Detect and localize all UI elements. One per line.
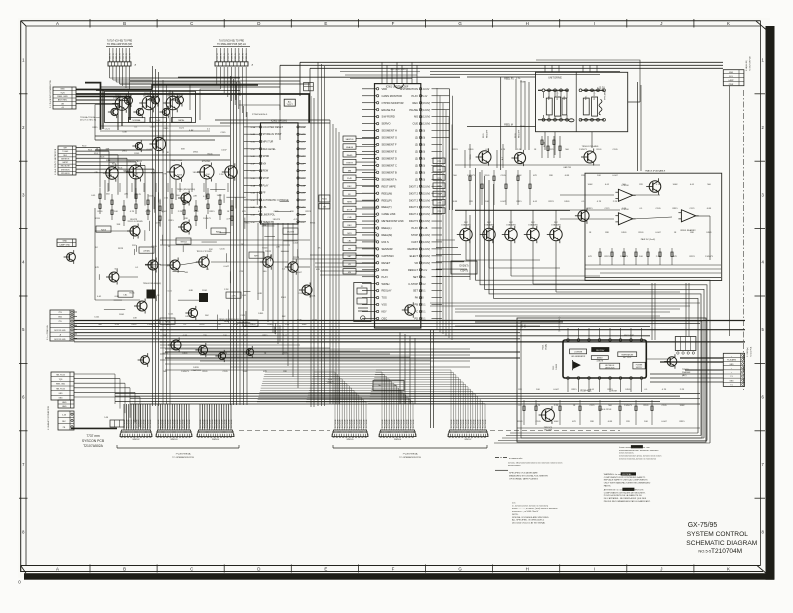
- svg-text:5-1G: 5-1G: [251, 171, 256, 173]
- svg-text:R223: R223: [452, 149, 458, 151]
- svg-text:5-1A: 5-1A: [251, 126, 256, 129]
- svg-text:SET: SET: [413, 275, 418, 279]
- svg-text:(GX-75 m SEL.TI): (GX-75 m SEL.TI): [80, 120, 96, 122]
- svg-text:SEGMENT F: SEGMENT F: [382, 143, 397, 147]
- svg-text:2SC(A): 2SC(A): [545, 344, 548, 350]
- svg-text:PLAY: PLAY: [412, 226, 419, 230]
- svg-text:P.CTL R: P.CTL R: [123, 53, 125, 61]
- bottom black border bar: [24, 573, 774, 580]
- svg-text:47K: 47K: [533, 175, 537, 177]
- capacitor cluster mid-right: [469, 170, 531, 205]
- svg-text:C105: C105: [250, 324, 256, 326]
- U901 left pin rows: [362, 87, 404, 321]
- svg-text:T2107A502A: T2107A502A: [83, 444, 104, 448]
- svg-text:REEL GND: REEL GND: [56, 384, 66, 386]
- svg-text:1S2473: 1S2473: [467, 175, 475, 177]
- svg-text:C121: C121: [604, 208, 610, 210]
- transistor row C labels: [109, 160, 211, 164]
- transistor TR130: [215, 350, 225, 362]
- wires track section: [560, 195, 721, 278]
- svg-text:CAPST: CAPST: [62, 161, 69, 164]
- wires mid-right: [455, 165, 620, 280]
- svg-text:R101: R101: [202, 290, 208, 292]
- svg-text:22K: 22K: [518, 389, 522, 391]
- transistor TR922: [664, 354, 677, 369]
- svg-text:1-88/98: 1-88/98: [556, 364, 558, 370]
- svg-text:REL MUTE: REL MUTE: [61, 166, 71, 168]
- transistor TR111: [126, 163, 143, 182]
- svg-text:C-STOP: C-STOP: [408, 282, 418, 286]
- power supply IC block body: [563, 340, 646, 378]
- svg-text:STN1243: STN1243: [202, 161, 211, 163]
- svg-text:R915: R915: [262, 335, 268, 337]
- wire fan: [200, 404, 231, 430]
- small box grid top right of key block: [304, 83, 314, 91]
- svg-text:NOTE:: NOTE:: [512, 514, 519, 516]
- svg-text:G: G: [458, 567, 462, 572]
- svg-text:(2): (2): [415, 177, 418, 181]
- connector to motor pcb top right: [723, 56, 751, 86]
- svg-text:C121: C121: [689, 208, 695, 210]
- svg-text:C121: C121: [589, 405, 595, 407]
- svg-text:P.CTL R: P.CTL R: [120, 53, 122, 61]
- note GX-75 tape select: [80, 116, 102, 122]
- svg-text:22K(B): 22K(B): [143, 251, 150, 253]
- svg-text:(2): (2): [415, 136, 418, 140]
- svg-text:GND: GND: [62, 406, 67, 408]
- svg-text:6.8K: 6.8K: [453, 201, 458, 203]
- svg-text:F: F: [392, 21, 395, 26]
- svg-text:S/W RORD: S/W RORD: [382, 115, 395, 119]
- svg-text:P.CTL R: P.CTL R: [217, 53, 219, 61]
- svg-text:R203: R203: [101, 230, 107, 232]
- svg-text:P.CTL R: P.CTL R: [235, 53, 237, 61]
- connector P5B meter: [58, 146, 76, 175]
- svg-text:MPX: MPX: [347, 233, 352, 235]
- svg-text:2.2K: 2.2K: [613, 201, 618, 203]
- svg-text:D901: D901: [258, 313, 264, 315]
- rotated pin labels above connectors: [124, 419, 487, 428]
- svg-text:R223: R223: [607, 389, 613, 391]
- svg-text:R223: R223: [548, 201, 554, 203]
- transistor TR121: [106, 270, 119, 285]
- svg-text:R223: R223: [162, 353, 168, 355]
- svg-text:5-1E: 5-1E: [251, 215, 256, 217]
- svg-text:(Km:1000 Ohm) DC AT NO SIGNAL: (Km:1000 Ohm) DC AT NO SIGNAL: [512, 521, 546, 524]
- svg-text:Y(4)TT: Y(4)TT: [287, 104, 294, 106]
- transistor TR910: [457, 226, 472, 243]
- svg-text:SEGMENT B: SEGMENT B: [382, 170, 397, 174]
- svg-text:5-1 7Ut7Jt7A TO POWER PCB: 5-1 7Ut7Jt7A TO POWER PCB: [49, 80, 52, 108]
- svg-text:ATTENTION: /m mm, 5.5 INDIQUEN: ATTENTION: /m mm, 5.5 INDIQUENT LES: [604, 488, 644, 491]
- svg-text:I: I: [594, 567, 595, 572]
- transistor TR119: [167, 258, 180, 273]
- boxed component labels mid-left: [96, 226, 298, 326]
- svg-text:DIGIT 4: DIGIT 4: [409, 212, 419, 216]
- svg-text:4.7K: 4.7K: [226, 218, 231, 220]
- note specified voltages: [509, 471, 548, 480]
- svg-text:TO OPERATION PCB: TO OPERATION PCB: [172, 456, 194, 459]
- transistor TR106: [159, 106, 169, 118]
- wires from transistor row down: [455, 210, 680, 292]
- svg-text:m mmmm m/m: m mmmm m/m: [509, 458, 523, 460]
- svg-text:4.7K: 4.7K: [155, 223, 160, 225]
- svg-text:6.8K: 6.8K: [189, 290, 194, 292]
- wire right of IC return bus: [436, 89, 470, 277]
- svg-text:WARNING: /m mm: WARNING: /m mm: [604, 473, 622, 476]
- svg-text:TR112 TR113: TR112 TR113: [170, 160, 183, 162]
- transistor TR101: [112, 94, 129, 113]
- U902 pin rows: [244, 126, 306, 224]
- svg-text:PLAY: PLAY: [347, 177, 353, 180]
- svg-text:R915: R915: [95, 218, 101, 220]
- svg-text:GND: GND: [730, 380, 735, 382]
- svg-text:R100: R100: [82, 146, 86, 148]
- svg-text:5-2C: 5-2C: [300, 142, 305, 144]
- svg-text:C105: C105: [655, 208, 661, 210]
- svg-text:REC/PLAY: REC/PLAY: [596, 349, 605, 352]
- svg-text:K: K: [727, 567, 730, 572]
- svg-text:R223: R223: [262, 247, 268, 249]
- connector CN2: [156, 430, 192, 441]
- svg-text:CAMS MONITOR: CAMS MONITOR: [382, 94, 403, 98]
- svg-text:0.047: 0.047: [224, 266, 230, 268]
- svg-text:(2): (2): [415, 157, 418, 161]
- grid column letters bottom: [56, 567, 730, 572]
- svg-text:REEL(M): REEL(M): [382, 191, 393, 195]
- wire stubs above microcontroller: [340, 62, 420, 84]
- svg-text:REV: REV: [347, 225, 352, 227]
- svg-text:B: B: [123, 567, 126, 572]
- transistor TR102: [139, 94, 156, 113]
- svg-text:MX: MX: [263, 162, 267, 165]
- svg-text:TR911: TR911: [470, 154, 472, 160]
- svg-text:SOL: SOL: [729, 76, 733, 78]
- svg-text:UNIT DRIVE: UNIT DRIVE: [548, 77, 562, 80]
- label TR921: [544, 427, 553, 432]
- svg-text:TR110: TR110: [109, 162, 116, 164]
- svg-text:SUPPLY: SUPPLY: [636, 367, 643, 369]
- svg-text:REEL P1: REEL P1: [504, 79, 514, 81]
- svg-text:R915: R915: [244, 223, 250, 225]
- svg-text:TRACK (PLAY)ABLE: TRACK (PLAY)ABLE: [645, 170, 666, 173]
- svg-text:REPLACE SAFETY CRITICAL COMPON: REPLACE SAFETY CRITICAL COMPONENTS: [604, 479, 648, 482]
- svg-text:5-2B: 5-2B: [300, 134, 305, 136]
- svg-text:CAME LINK: CAME LINK: [382, 212, 396, 216]
- svg-text:C121: C121: [94, 317, 100, 319]
- svg-text:(15.8V): (15.8V): [422, 185, 430, 188]
- svg-text:33K: 33K: [106, 149, 110, 151]
- svg-text:R915: R915: [587, 208, 593, 210]
- svg-text:P.CTL DN: P.CTL DN: [366, 419, 368, 428]
- svg-text:REGORY: REGORY: [487, 129, 489, 138]
- svg-text:DIGIT 1: DIGIT 1: [409, 184, 419, 188]
- svg-text:(0): (0): [422, 164, 425, 167]
- connector J2A to pre-amp pcb: [106, 40, 137, 67]
- svg-text:0.047: 0.047: [661, 421, 667, 423]
- svg-text:GND: GND: [729, 72, 734, 74]
- svg-text:7U7Jt7-(GX-95) TO PRE: 7U7Jt7-(GX-95) TO PRE: [107, 40, 133, 43]
- svg-text:AMBLE: AMBLE: [597, 357, 604, 360]
- svg-text:R102: R102: [94, 153, 98, 155]
- svg-text:C105: C105: [222, 371, 228, 373]
- svg-text:G: G: [458, 21, 462, 26]
- svg-text:R101: R101: [281, 297, 287, 299]
- svg-text:H: H: [526, 567, 529, 572]
- svg-text:REEL M: REEL M: [504, 124, 513, 126]
- svg-text:VDD: VDD: [382, 87, 388, 91]
- svg-text:DE L'APPAREIL. NE REMPLACER QU: DE L'APPAREIL. NE REMPLACER QUE DES: [604, 497, 647, 500]
- motor drive unit 1 components: [538, 89, 568, 121]
- op-amp IC901b: [615, 213, 635, 225]
- svg-text:C105: C105: [293, 243, 299, 245]
- svg-text:100K: 100K: [680, 405, 686, 407]
- svg-text:D101: D101: [483, 133, 485, 138]
- svg-text:(15.8V): (15.8V): [422, 255, 430, 258]
- svg-text:2.2K: 2.2K: [680, 389, 685, 391]
- svg-text:(13.8V): (13.8V): [422, 116, 430, 119]
- svg-text:RX14B: RX14B: [544, 142, 546, 147]
- svg-text:33K: 33K: [184, 218, 188, 220]
- wires power section: [455, 283, 689, 359]
- svg-text:5.1V: 5.1V: [422, 269, 427, 272]
- resistor array RA901 column: [343, 136, 376, 274]
- transistor TR905b: [646, 178, 661, 195]
- connector P5D2: [58, 400, 74, 408]
- svg-text:22K: 22K: [276, 247, 280, 249]
- svg-text:100K: 100K: [588, 184, 594, 186]
- wire horizontals entering power section: [430, 303, 700, 316]
- brace and label TO OPERATION PCB left: [117, 445, 239, 459]
- svg-text:P.CTL DN: P.CTL DN: [485, 419, 487, 428]
- fan wires CN6: [368, 370, 485, 430]
- svg-text:100K: 100K: [154, 319, 160, 321]
- svg-text:REEL GND: REEL GND: [57, 96, 68, 98]
- svg-text:33K: 33K: [163, 335, 167, 337]
- svg-text:47K: 47K: [94, 172, 98, 174]
- transistor TR131: [243, 346, 253, 358]
- transistor TR104: [108, 106, 118, 118]
- box DX26 Y23473: [451, 261, 477, 274]
- svg-text:5-1H: 5-1H: [251, 178, 256, 180]
- label boxes right of IC: [433, 158, 445, 213]
- svg-text:1S2473: 1S2473: [203, 218, 211, 220]
- svg-text:CrO2: CrO2: [156, 119, 161, 122]
- connector P5C motor gnd: [50, 310, 74, 341]
- svg-text:TR921: TR921: [543, 345, 545, 350]
- svg-text:TR116 (RN1402L16): TR116 (RN1402L16): [177, 189, 196, 191]
- svg-text:(2): (2): [415, 163, 418, 167]
- labels mid-right transistors: [465, 129, 599, 168]
- svg-text:R101: R101: [207, 154, 213, 156]
- motor drive unit 2 components: [579, 89, 606, 121]
- brace and label TO OPERATION PCB right: [333, 445, 487, 459]
- svg-text:0.047: 0.047: [147, 149, 153, 151]
- svg-text:DX26: DX26: [193, 367, 199, 369]
- svg-text:STOP: STOP: [263, 177, 270, 180]
- legend line samples: [495, 458, 523, 471]
- svg-text:(0): (0): [422, 171, 425, 174]
- svg-text:D901: D901: [621, 232, 627, 234]
- transistor TR913: [524, 226, 539, 243]
- svg-text:SEGMENT A: SEGMENT A: [382, 177, 397, 181]
- svg-text:22K: 22K: [581, 175, 585, 177]
- svg-text:1.7%: 1.7%: [516, 78, 521, 80]
- op-amp IC902: [678, 210, 698, 222]
- svg-text:R223: R223: [177, 175, 183, 177]
- svg-text:47K: 47K: [316, 269, 320, 271]
- svg-text:SPECIFIED VOLTAGES ARE: SPECIFIED VOLTAGES ARE: [509, 471, 538, 474]
- svg-text:PL ALARM: PL ALARM: [727, 359, 736, 362]
- svg-text:TR123: TR123: [293, 257, 300, 259]
- svg-text:METAL: METAL: [178, 119, 184, 122]
- labels power section: [522, 316, 635, 411]
- svg-text:PLAY: PLAY: [382, 275, 389, 279]
- svg-text:22K: 22K: [469, 201, 473, 203]
- svg-text:RESULT: RESULT: [408, 268, 418, 272]
- svg-text:C121: C121: [179, 128, 185, 130]
- svg-text:A: A: [56, 567, 59, 572]
- wire drops from connector J2B: [190, 67, 280, 140]
- svg-text:METER R: METER R: [61, 158, 70, 160]
- svg-text:2.2K: 2.2K: [243, 353, 248, 355]
- svg-text:10K: 10K: [282, 316, 286, 318]
- right black border bar: [766, 26, 775, 580]
- svg-text:P.CTL R: P.CTL R: [110, 53, 112, 61]
- svg-text:KEY: KEY: [382, 310, 387, 314]
- svg-text:CTR: CTR: [437, 211, 442, 213]
- svg-text:DX26(?): DX26(?): [460, 265, 469, 268]
- svg-text:PA: PA: [415, 296, 419, 300]
- connector CN1: [120, 430, 152, 441]
- svg-text:C121: C121: [282, 353, 288, 355]
- svg-text:K: K: [727, 21, 730, 26]
- svg-text:10K: 10K: [206, 174, 210, 176]
- svg-text:MS: MS: [414, 115, 418, 119]
- svg-text:(?)G-R(?) 130X.2): (?)G-R(?) 130X.2): [559, 316, 561, 332]
- svg-text:REEL: REEL: [564, 96, 566, 100]
- svg-text:(15.8V): (15.8V): [422, 262, 430, 265]
- svg-text:TR903 DTC144ES: TR903 DTC144ES: [582, 146, 599, 148]
- svg-text:CTR: CTR: [437, 178, 442, 180]
- wire drops below key scan block: [258, 223, 375, 388]
- svg-text:1S2473: 1S2473: [193, 172, 201, 174]
- svg-text:TQS: TQS: [60, 92, 65, 94]
- svg-text:DET. LOOP: DET. LOOP: [623, 357, 631, 359]
- svg-text:M.R.S: M.R.S: [382, 240, 389, 244]
- svg-text:I: I: [594, 21, 595, 26]
- long wire right margin from motor block: [516, 60, 640, 150]
- connector CN5: [379, 430, 416, 441]
- svg-text:RESET: RESET: [382, 261, 391, 265]
- svg-text:VSS: VSS: [382, 303, 387, 307]
- svg-text:WM502: WM502: [133, 439, 141, 441]
- svg-text:OF NORMAL TAPE PLAYING: OF NORMAL TAPE PLAYING: [509, 478, 538, 481]
- svg-text:33K: 33K: [263, 225, 267, 227]
- svg-text:& MUTE: & MUTE: [597, 361, 604, 363]
- svg-text:6.8K: 6.8K: [707, 208, 712, 210]
- svg-text:5-1C: 5-1C: [251, 200, 256, 202]
- wires to 8pin connector: [650, 86, 730, 382]
- svg-text:DIGIT 5: DIGIT 5: [409, 219, 419, 223]
- transistor TR117: [178, 220, 191, 235]
- svg-text:T210704M: T210704M: [711, 548, 742, 555]
- wire dashed link between connector groups: [239, 430, 620, 432]
- svg-text:REW: REW: [347, 202, 352, 204]
- svg-text:7.5: 7.5: [730, 384, 733, 386]
- svg-text:5-2A: 5-2A: [300, 126, 305, 129]
- svg-text:2.2K: 2.2K: [517, 149, 522, 151]
- svg-text:D: D: [257, 21, 260, 26]
- svg-text:METER DISP LINK: METER DISP LINK: [382, 219, 405, 223]
- svg-text:(0): (0): [422, 130, 425, 133]
- svg-text:100K: 100K: [517, 175, 523, 177]
- svg-text:(0): (0): [422, 144, 425, 147]
- svg-text:R101: R101: [638, 232, 644, 234]
- svg-text:CUE: CUE: [347, 217, 352, 219]
- svg-text:TO PRE AMP PCB (9P): TO PRE AMP PCB (9P): [107, 43, 132, 46]
- svg-text:TO OPERATION PCB: TO OPERATION PCB: [399, 456, 421, 459]
- svg-text:REEL: REEL: [586, 96, 588, 100]
- svg-text:P.CTL R: P.CTL R: [246, 53, 248, 61]
- transistor TR902: [511, 150, 525, 166]
- svg-text:C: C: [190, 567, 193, 572]
- svg-text:P.CTL R: P.CTL R: [232, 53, 234, 61]
- svg-text:0.047: 0.047: [267, 324, 273, 326]
- box ALL above key block: [284, 99, 295, 106]
- svg-text:5-2A: 5-2A: [300, 184, 305, 187]
- transistor TR906: [64, 250, 76, 264]
- svg-text:6.8K: 6.8K: [183, 335, 188, 337]
- svg-text:0.047: 0.047: [242, 335, 248, 337]
- transistor TR127: [168, 338, 181, 353]
- svg-text:CTR: CTR: [437, 203, 442, 205]
- svg-text:1S2473: 1S2473: [287, 232, 295, 234]
- svg-text:6.8K: 6.8K: [622, 208, 627, 210]
- svg-text:4.7K: 4.7K: [501, 149, 506, 151]
- svg-text:D901: D901: [468, 149, 474, 151]
- wire verticals left spine: [153, 66, 315, 407]
- svg-text:R915: R915: [163, 128, 169, 130]
- svg-text:33K: 33K: [690, 232, 694, 234]
- svg-text:100K: 100K: [217, 195, 223, 197]
- svg-text:J: J: [660, 567, 662, 572]
- svg-text:ERASE THI: ERASE THI: [382, 108, 396, 112]
- connector row mid right: [675, 337, 696, 355]
- svg-text:R915: R915: [672, 208, 678, 210]
- svg-text:7^U-937 EEmA: 7^U-937 EEmA: [402, 452, 418, 455]
- svg-text:R103: R103: [100, 157, 104, 159]
- svg-text:2.2K: 2.2K: [155, 295, 160, 297]
- svg-text:5-1A: 5-1A: [251, 184, 256, 187]
- svg-text:22K: 22K: [166, 324, 170, 326]
- svg-text:1S2473: 1S2473: [123, 170, 131, 172]
- connector CN6: [448, 430, 488, 441]
- svg-text:LINER POL: LINER POL: [263, 214, 276, 217]
- svg-text:PLAY: PLAY: [412, 94, 419, 98]
- svg-text:REC DR(M): REC DR(M): [594, 91, 596, 100]
- transistor TR103: [163, 94, 180, 113]
- svg-text:33K: 33K: [549, 175, 553, 177]
- thick wires from P5A: [76, 83, 258, 130]
- wire bus mid-2 stack: [165, 349, 520, 370]
- svg-text:MPX TUR: MPX TUR: [263, 141, 274, 144]
- svg-text:SERVO: SERVO: [382, 122, 391, 126]
- svg-text:5-1B: 5-1B: [422, 227, 427, 230]
- svg-text:22K: 22K: [193, 196, 197, 198]
- svg-text:WDSH: WDSH: [382, 282, 390, 286]
- svg-text:4.7K: 4.7K: [203, 196, 208, 198]
